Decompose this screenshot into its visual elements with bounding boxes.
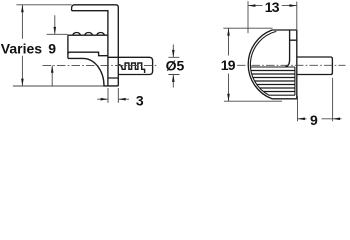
pad right edge xyxy=(294,67,296,95)
arrow 19 up xyxy=(227,28,230,35)
dim 9 arrow lines xyxy=(52,15,55,86)
screw slot notch xyxy=(285,31,297,67)
arrow Varies down xyxy=(21,79,24,86)
arrow 3 right xyxy=(101,98,108,101)
arrow 3 left xyxy=(118,98,125,101)
dim 19 line xyxy=(228,28,230,101)
arrow 9r right-tip xyxy=(298,118,305,121)
body bottom rounded foot xyxy=(68,58,118,86)
dim 9r line xyxy=(298,118,342,120)
dim 13 line xyxy=(248,5,297,7)
pin (right view) xyxy=(297,57,333,75)
svg-text:9: 9 xyxy=(310,112,318,128)
arrow Ø5 up xyxy=(172,75,175,82)
svg-text:Ø5: Ø5 xyxy=(166,58,185,74)
pad hatch lines xyxy=(251,71,295,92)
dim Ø5 arrow lines xyxy=(172,45,174,88)
svg-text:19: 19 xyxy=(221,57,236,73)
arrow 13 left xyxy=(248,4,255,7)
dim 3 extensions xyxy=(108,88,118,103)
inner arc chamfer xyxy=(250,31,294,95)
arrow 19 down xyxy=(227,94,230,101)
dim Ø5 ticks xyxy=(168,57,179,74)
arrow 9 up xyxy=(51,65,54,72)
inner step line xyxy=(68,52,108,56)
svg-text:13: 13 xyxy=(265,0,280,15)
serrated plate left edge xyxy=(67,35,69,58)
dim 19 ticks xyxy=(223,28,282,101)
pad top line xyxy=(250,66,295,68)
dim 3 arrow lines xyxy=(97,98,129,100)
arrow Ø5 down xyxy=(172,50,175,57)
pin (left view) xyxy=(108,57,153,74)
centerline right view xyxy=(237,64,346,66)
dim Varies line xyxy=(21,5,23,86)
arrow Varies up xyxy=(21,5,24,12)
svg-text:Varies: Varies xyxy=(1,40,42,56)
centerline left view xyxy=(43,64,159,66)
dim Varies bottom extension xyxy=(13,85,104,87)
svg-text:3: 3 xyxy=(136,92,144,108)
serrated plate top with bumps xyxy=(68,33,108,36)
arrow 9r left-tip xyxy=(333,118,340,121)
dim 9 tick xyxy=(47,33,68,35)
clamp arm inner edge xyxy=(72,11,108,86)
dim 9r extensions xyxy=(298,78,333,121)
arrow 13 right xyxy=(289,4,296,7)
pin rib detail xyxy=(118,63,144,73)
svg-text:9: 9 xyxy=(48,41,56,57)
dim 13 extensions xyxy=(248,1,297,33)
arrow 9 down xyxy=(54,27,57,34)
dim Varies top extension xyxy=(16,4,71,6)
round body outline (right view) xyxy=(248,30,297,99)
clamp top arm (left view) xyxy=(72,5,119,86)
